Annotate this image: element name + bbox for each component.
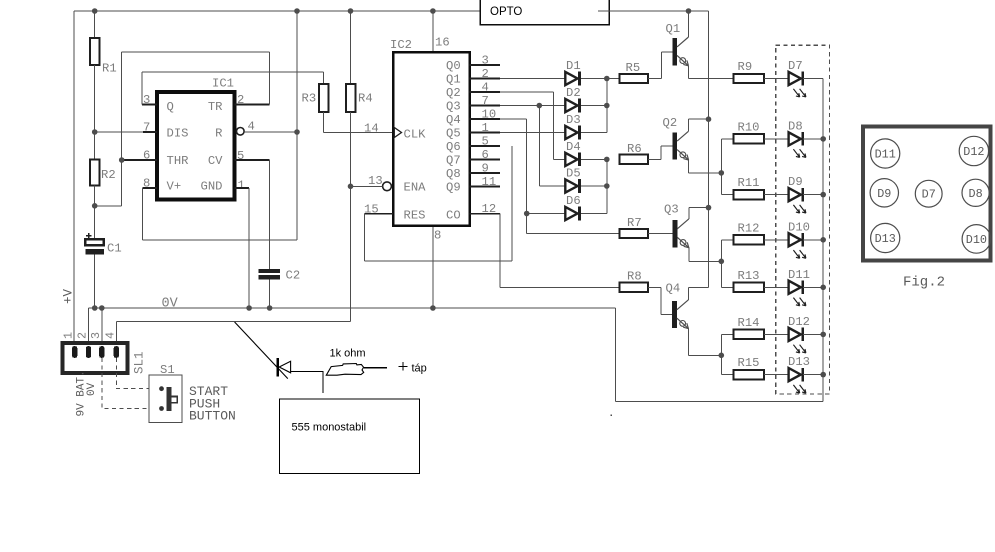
svg-text:Q6: Q6 [446, 140, 461, 154]
connector SL1 body [62, 343, 127, 373]
node D11 cathode / bus [820, 285, 826, 291]
svg-text:R12: R12 [738, 221, 760, 235]
IC2 pin 5 stub (Q6) [470, 145, 501, 147]
svg-text:CLK: CLK [404, 128, 427, 142]
svg-text:1k ohm: 1k ohm [330, 348, 366, 360]
wire D1 cathode to bus [581, 78, 607, 80]
resistor R8 [619, 270, 648, 293]
wire D13 cathode to bus [803, 374, 823, 376]
Fig.2 LED circle D7 [915, 180, 942, 207]
svg-text:Q: Q [167, 100, 174, 114]
IC2 pin 10 number [482, 108, 497, 122]
wire D5 cathode to bus [581, 185, 607, 187]
svg-text:IC2: IC2 [390, 38, 412, 52]
svg-text:5: 5 [237, 149, 244, 163]
transistor Q4 [666, 282, 689, 329]
IC1 pin 5 number [237, 149, 244, 163]
wire pin7 branch to D5 anode [539, 185, 565, 187]
wire R5 to Q1 base [648, 52, 672, 79]
IC2 pin14 number [364, 122, 379, 136]
node pin3 / 0V rail [99, 305, 105, 311]
node D12 cathode / bus [820, 332, 826, 338]
IC1 pin2 TR stub [235, 104, 270, 106]
SL1 pin 1 number (rotated) [62, 332, 76, 339]
IC1 pin 1 number [238, 179, 245, 193]
IC2 label Q9 inside [446, 180, 461, 194]
svg-text:D13: D13 [788, 355, 810, 369]
svg-text:SL1: SL1 [133, 351, 147, 374]
wire connector pin3 up to 0V [101, 308, 103, 343]
IC2 pin8 number [434, 229, 441, 243]
svg-text:9: 9 [482, 162, 489, 176]
wire D8 cathode to bus [803, 138, 823, 140]
wire into R3 top [323, 72, 325, 84]
label START PUSH BUTTON [189, 384, 236, 424]
svg-text:R10: R10 [738, 120, 760, 134]
IC1 label DIS pin7 inside [167, 126, 189, 140]
wire node up to R14 [721, 334, 733, 355]
Fig.2 LED circle D10 [962, 225, 991, 254]
wire D10 cathode to bus [803, 239, 823, 241]
transistor Q1 [666, 22, 689, 66]
switch S1 body [149, 363, 182, 423]
wire pin10 net to R7 [527, 233, 620, 235]
wire ENA net to connector pin4 [116, 321, 350, 323]
IC1 pin 2 number [237, 93, 244, 107]
IC2 label Q0 inside [446, 59, 461, 73]
wire IC2 pin8 to 0V rail [432, 227, 434, 308]
wire CV vertical to C2 [269, 160, 271, 269]
dashed wire pin3 to S1 [102, 358, 159, 409]
resistor R2 [90, 159, 116, 185]
IC2 CLK label and triangle [394, 128, 426, 142]
svg-text:Q1: Q1 [666, 22, 681, 36]
IC2 pin 7 number [482, 94, 489, 108]
svg-text:Q1: Q1 [446, 72, 461, 86]
svg-text:Fig.2: Fig.2 [903, 275, 945, 291]
node bus D1/R5 [604, 76, 610, 82]
node GND / 0V rail [246, 305, 252, 311]
wire Q4 collector up [688, 288, 708, 300]
wire D4-D6 cathode bus [606, 159, 608, 213]
svg-text:R1: R1 [102, 62, 117, 76]
node D10 cathode / bus [820, 237, 826, 243]
IC2 label Q4 inside [446, 113, 461, 127]
svg-text:CV: CV [208, 154, 223, 168]
IC1 pin5 CV stub [235, 159, 270, 161]
svg-text:D7: D7 [788, 59, 803, 73]
IC2 pin 1 stub (Q5) [470, 132, 501, 134]
wire R10 to D8 anode [764, 138, 789, 140]
svg-text:16: 16 [435, 36, 450, 50]
wire Q2 collector up [689, 119, 709, 131]
svg-text:D4: D4 [566, 140, 581, 154]
node C2 / 0V rail [267, 305, 273, 311]
svg-text:D9: D9 [788, 175, 803, 189]
svg-text:R6: R6 [627, 142, 642, 156]
diode D1 [565, 59, 580, 85]
svg-text:OPTO: OPTO [490, 6, 522, 18]
svg-text:D10: D10 [966, 233, 987, 247]
wire pin10 down [526, 119, 528, 234]
node Q1 collector / top rail [686, 8, 692, 14]
LED D7 [788, 59, 806, 97]
wire D7 cathode to bus [803, 78, 823, 80]
wire bus to R5 [607, 78, 620, 80]
S1 contact bottom [159, 406, 164, 411]
IC2 pin 2 number [482, 67, 489, 81]
svg-text:3: 3 [482, 54, 489, 68]
svg-text:D6: D6 [566, 194, 581, 208]
diode D5 [565, 167, 580, 193]
IC1 pin 8 number [143, 177, 150, 191]
LED D11 [788, 268, 810, 306]
annotation 1k ohm potentiometer blob [326, 364, 363, 376]
svg-text:R15: R15 [738, 356, 760, 370]
IC1 pin 6 number [143, 149, 150, 163]
SL1 pin 2 slot [86, 346, 91, 358]
svg-text:Q2: Q2 [446, 86, 461, 100]
wire Q2/pin4 down [552, 92, 554, 159]
svg-text:Q7: Q7 [446, 153, 461, 167]
svg-text:R4: R4 [358, 92, 373, 106]
wire Q3 emitter to R12/R13 node [689, 260, 722, 262]
wire top rail right of OPTO [598, 10, 709, 12]
svg-text:R7: R7 [627, 216, 642, 230]
SL1 pin 4 slot [114, 346, 119, 358]
IC2 pin 2 stub (Q1) [470, 78, 501, 80]
Fig.2 panel box [863, 126, 990, 260]
annotation box 555 monostabil [280, 399, 420, 474]
wire R14 to D12 anode [764, 333, 789, 335]
annotation wire blob to +tap [364, 367, 387, 369]
svg-text:R9: R9 [738, 60, 753, 74]
node D8 cathode / bus [820, 136, 826, 142]
resistor R11 [734, 176, 764, 199]
svg-text:C2: C2 [286, 269, 301, 283]
IC2 pin15 number [364, 203, 379, 217]
wire top rail to R1 [94, 11, 96, 38]
IC1 label CV pin5 inside [208, 154, 223, 168]
IC2 pin 11 number [482, 175, 497, 189]
wire Q4/pin10 right [500, 118, 527, 120]
IC1 label R pin4 inside [215, 126, 222, 140]
svg-text:D8: D8 [969, 187, 983, 201]
label SL1 (rotated) [133, 351, 147, 374]
IC2 pin 12 number [482, 202, 497, 216]
svg-text:R: R [215, 126, 222, 140]
stray dot [610, 415, 612, 417]
transistor Q3 [664, 203, 689, 248]
svg-text:Q9: Q9 [446, 180, 461, 194]
node bus D4/R6 [604, 157, 610, 163]
wire R3 bottom to CLK [324, 112, 394, 133]
svg-text:D12: D12 [963, 145, 984, 159]
IC2 pin 7 stub (Q3) [470, 105, 501, 107]
resistor R13 [734, 269, 764, 292]
node R2 bottom / C1 / THR link [92, 203, 98, 209]
svg-text:R11: R11 [738, 176, 760, 190]
wire IC2 pin16 to top rail [432, 11, 434, 51]
resistor R9 [734, 60, 764, 83]
IC2 pin 6 stub (Q7) [470, 159, 501, 161]
node Q2 collector / rail [706, 116, 712, 122]
wire R15 to D13 anode [764, 374, 789, 376]
wire pin7 branch down [538, 106, 540, 187]
wire GND pin1 down [248, 188, 250, 308]
annotation wire diode to 555 box [291, 372, 323, 393]
node Q3 collector / rail [706, 205, 712, 211]
wire R7 to Q3 base [648, 233, 672, 235]
IC2 CO label [446, 209, 461, 223]
wire Q1/pin2 to D1 anode [500, 78, 565, 80]
svg-text:D9: D9 [877, 187, 891, 201]
svg-text:D7: D7 [922, 188, 936, 202]
IC2 pin 11 stub (Q9) [470, 186, 501, 188]
IC2 pin 1 number [482, 121, 489, 135]
IC1 pin1 GND stub [235, 187, 250, 189]
label +V (rotated) [62, 288, 76, 304]
wire node up to R12 [721, 240, 733, 261]
dashed enclosure around LEDs [776, 45, 830, 394]
svg-text:+V: +V [62, 288, 76, 304]
IC1 pin 7 number [143, 121, 150, 135]
svg-text:8: 8 [434, 229, 441, 243]
node V+ riser / R pin4 [294, 129, 300, 135]
svg-text:Q4: Q4 [446, 113, 461, 127]
svg-text:D10: D10 [788, 220, 810, 234]
wire Q1 emitter to R9 [689, 78, 734, 80]
IC1 pin 3 number [143, 93, 150, 107]
svg-text:D5: D5 [566, 167, 581, 181]
dashed wire pin4 to S1 [116, 358, 159, 389]
wire +V top rail (left segment) [74, 10, 480, 12]
node Q4 emitter junction [719, 353, 725, 359]
wire R6 to Q2 base [648, 146, 672, 159]
IC2 pin 4 stub (Q2) [470, 91, 501, 93]
node V+ riser / top rail [294, 8, 300, 14]
wire Q pin3 vertical [141, 72, 143, 104]
wire node down to R15 [721, 355, 733, 374]
node top rail / R4 [348, 8, 354, 14]
svg-text:R13: R13 [738, 269, 760, 283]
wire D11 cathode to bus [803, 286, 823, 288]
svg-text:R5: R5 [626, 61, 641, 75]
resistor R5 [619, 61, 648, 83]
resistor R7 [619, 216, 648, 238]
node ENA junction [348, 184, 354, 190]
wire R8 to Q4 base [648, 287, 672, 314]
IC2 label Q1 inside [446, 72, 461, 86]
IC2 label Q5 inside [446, 126, 461, 140]
svg-text:Q5: Q5 [446, 126, 461, 140]
svg-text:Q4: Q4 [666, 282, 681, 296]
IC1 label TR pin2 inside [208, 100, 223, 114]
wire pin4 to D4 anode [553, 158, 565, 160]
IC2 pin 3 number [482, 54, 489, 68]
node C1 / 0V rail [92, 305, 98, 311]
svg-text:6: 6 [482, 148, 489, 162]
wire TR loop vertical left to THR [121, 52, 123, 160]
IC2 label Q6 inside [446, 140, 461, 154]
label 0V battery (rotated) [86, 382, 98, 396]
wire D9 cathode to bus [803, 194, 823, 196]
wire DIS to R1/R2 junction [95, 131, 143, 133]
node junction top rail / R1 [92, 8, 98, 14]
svg-text:D3: D3 [566, 113, 581, 127]
svg-text:D11: D11 [788, 268, 810, 282]
svg-text:10: 10 [482, 108, 497, 122]
svg-text:TR: TR [208, 100, 223, 114]
SL1 pin 1 slot [72, 346, 77, 358]
svg-text:1: 1 [482, 121, 489, 135]
wire Q3 emitter down [688, 248, 690, 262]
capacitor C1 [85, 233, 122, 255]
op-amp IC1 body (555 timer) [157, 77, 235, 200]
svg-text:1: 1 [238, 179, 245, 193]
wire R1 to DIS node [94, 65, 96, 160]
label 9V BAT. (rotated) [76, 370, 88, 416]
wire D2 cathode to bus [581, 105, 607, 107]
Fig.2 LED circle D11 [871, 139, 900, 168]
svg-text:14: 14 [364, 122, 379, 136]
capacitor C2 [259, 269, 300, 283]
svg-text:4: 4 [103, 332, 117, 339]
wire Q pin3 horizontal to R3 [142, 71, 323, 73]
IC2 pin 5 number [482, 135, 489, 149]
svg-text:D12: D12 [788, 315, 810, 329]
wire +V left rail [73, 11, 75, 342]
wire collector rail [708, 11, 710, 288]
svg-text:11: 11 [482, 175, 497, 189]
svg-text:1: 1 [62, 332, 76, 339]
wire D4 cathode to bus [581, 158, 607, 160]
wire 0V rail [89, 307, 616, 309]
SL1 pin 4 number (rotated) [103, 332, 117, 339]
svg-text:2: 2 [76, 332, 90, 339]
wire C1 to 0V rail [94, 255, 96, 309]
node pin16 / top rail [430, 8, 436, 14]
resistor R1 [90, 38, 117, 76]
node pin7 branch [537, 103, 543, 109]
node pin10 / D6 junction [524, 211, 530, 217]
svg-text:D13: D13 [875, 232, 896, 246]
wire node down to R11 [721, 173, 733, 195]
svg-text:ENA: ENA [404, 181, 427, 195]
diode D4 [565, 140, 580, 166]
svg-text:Q8: Q8 [446, 167, 461, 181]
svg-text:R8: R8 [627, 270, 642, 284]
annotation diagonal wire [235, 322, 288, 379]
IC2 pin 3 stub (Q0) [470, 64, 501, 66]
node pin8 / 0V rail [430, 305, 436, 311]
IC1 label THR pin6 inside [167, 154, 189, 168]
IC1 label Q pin3 inside [167, 100, 174, 114]
Fig.2 LED circle D13 [871, 223, 900, 252]
svg-text:IC1: IC1 [212, 77, 234, 91]
node D9 cathode / bus [820, 192, 826, 198]
svg-text:D1: D1 [566, 59, 581, 73]
svg-text:V+: V+ [167, 179, 182, 193]
wire D6 cathode to bus [581, 213, 607, 215]
resistor R12 [734, 221, 764, 244]
wire Q4 emitter down [687, 329, 689, 356]
LED D10 [788, 220, 810, 258]
wire THR link horizontal [95, 205, 122, 207]
SL1 pin 2 number (rotated) [76, 332, 90, 339]
wire C2 to 0V rail [269, 280, 271, 309]
node D13 cathode / bus [820, 372, 826, 378]
wire 0V return riser [614, 308, 616, 401]
svg-text:Q3: Q3 [664, 203, 679, 217]
svg-text:Q3: Q3 [446, 99, 461, 113]
SL1 pin 3 slot [99, 346, 104, 358]
wire Q3 collector up [689, 208, 709, 219]
wire D3 cathode to bus [581, 132, 607, 134]
LED D9 [788, 175, 806, 213]
svg-text:D2: D2 [566, 86, 581, 100]
IC1 pin4 R bubble [237, 128, 245, 136]
IC2 label Q8 inside [446, 167, 461, 181]
IC2 ENA label [404, 181, 427, 195]
svg-text:2: 2 [482, 67, 489, 81]
Fig.2 LED circle D9 [870, 179, 898, 207]
wire Q2 emitter to R10/R11 node [689, 172, 722, 174]
resistor R14 [734, 316, 764, 339]
wire LED cathode bus [822, 79, 824, 402]
IC2 pin 9 stub (Q8) [470, 172, 501, 174]
diode D2 [565, 86, 580, 112]
wire V+ riser to top rail [296, 11, 298, 240]
counter IC2 body (4017) [390, 38, 470, 226]
node bus D2 [604, 103, 610, 109]
svg-text:4: 4 [248, 120, 255, 134]
resistor R6 [619, 142, 648, 164]
wire V+ horizontal bottom [143, 239, 297, 241]
IC1 pin3 Q stub [142, 104, 157, 106]
S1 actuator [167, 387, 178, 411]
wire Q2/pin4 right [500, 91, 553, 93]
wire Q6 pin5 riser down [511, 146, 513, 261]
wire Q3/pin7 to D2 anode [500, 105, 565, 107]
wire Q2 emitter down [688, 160, 690, 173]
node DIS junction R1/R2 [92, 129, 98, 135]
LED D12 [788, 315, 810, 353]
transistor Q2 [663, 116, 689, 160]
svg-text:D8: D8 [788, 119, 803, 133]
label Fig.2 [903, 275, 945, 291]
wire D12 cathode to bus [803, 333, 823, 335]
wire top rail to R4 [350, 11, 352, 84]
wire D1-D3 cathode bus [606, 79, 608, 133]
wire Q4 emitter to R14/R15 node [688, 354, 721, 356]
node THR junction [119, 157, 125, 163]
node bus D5 [604, 183, 610, 189]
IC1 label V+ pin8 inside [167, 179, 182, 193]
resistor R4 [346, 84, 373, 112]
IC1 pin7 DIS stub [143, 131, 157, 133]
label 0V rail [162, 297, 179, 312]
svg-text:THR: THR [167, 154, 189, 168]
wire R12 to D10 anode [764, 239, 789, 241]
svg-text:R14: R14 [738, 316, 760, 330]
wire R pin4 to riser [244, 131, 297, 133]
IC2 pin13 number [368, 174, 383, 188]
svg-text:0V: 0V [86, 382, 98, 396]
IC2 RES label [404, 209, 426, 223]
wire node down to R13 [721, 261, 733, 287]
annotation diode [278, 358, 291, 377]
